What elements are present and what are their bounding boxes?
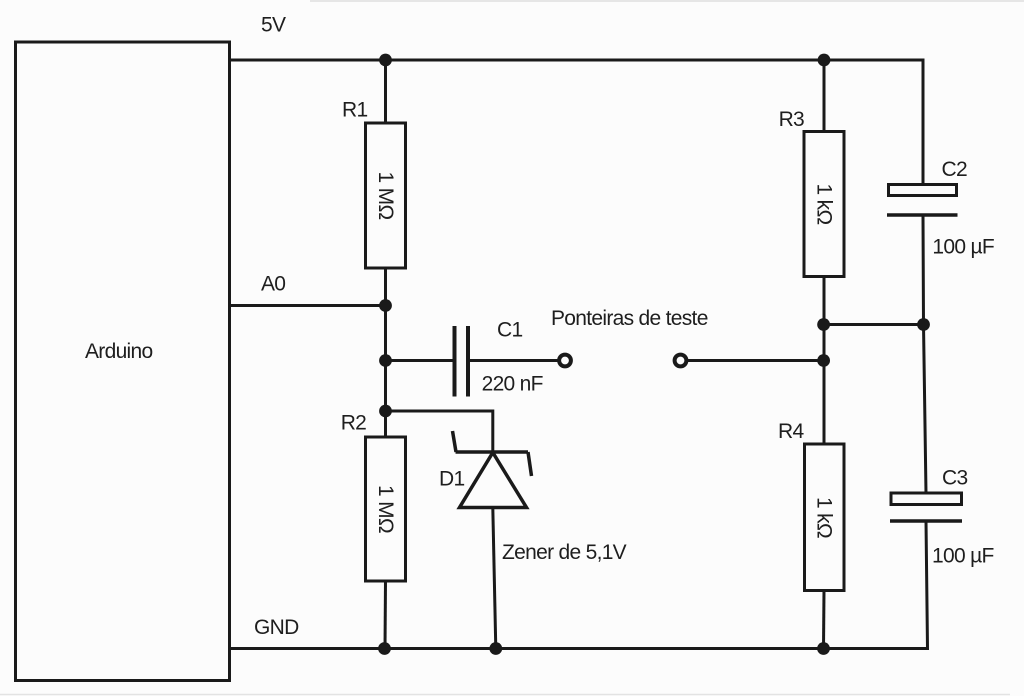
node C1 junction (379, 354, 392, 367)
wire 5V node to R1 top (384, 60, 387, 123)
capacitor C2 top plate (889, 185, 957, 196)
svg-text:GND: GND (254, 616, 299, 639)
node 5V/R3 junction (818, 54, 831, 67)
wire D1 anode to GND (493, 508, 496, 649)
resistor R2 body (366, 437, 406, 581)
svg-text:R2: R2 (341, 412, 366, 435)
node zener junction (379, 405, 392, 418)
svg-text:Zener de 5,1V: Zener de 5,1V (502, 541, 627, 564)
svg-text:5V: 5V (261, 14, 286, 37)
svg-text:C1: C1 (497, 319, 522, 342)
scan artifact bottom edge (0, 694, 1010, 696)
wire R1 bottom through A0/C1/zener nodes to R2 top (384, 268, 387, 437)
svg-text:R3: R3 (779, 108, 804, 131)
svg-text:1 MΩ: 1 MΩ (374, 172, 397, 220)
svg-text:R1: R1 (342, 99, 367, 122)
resistor R4 body (805, 444, 845, 591)
scan artifact top edge (310, 0, 1024, 2)
svg-text:100 µF: 100 µF (932, 545, 994, 568)
wire right rail between C2 and C3 (923, 216, 926, 494)
wire R3 bottom through nodes to R4 top (823, 277, 826, 445)
capacitor C3 top plate (891, 493, 962, 505)
svg-text:220 nF: 220 nF (482, 372, 543, 395)
terminal left test probe (559, 355, 571, 367)
svg-text:D1: D1 (439, 468, 464, 491)
svg-text:1 kΩ: 1 kΩ (813, 184, 836, 225)
svg-text:R4: R4 (778, 420, 804, 443)
svg-text:C3: C3 (942, 467, 967, 490)
node C2 bottom junction (917, 318, 930, 331)
node R4/GND junction (817, 642, 830, 655)
diode D1 zener left hook (453, 431, 457, 452)
terminal right test probe (675, 355, 687, 367)
diode D1 zener cathode bar (456, 450, 529, 454)
capacitor C1 left plate (453, 326, 457, 397)
resistor R3 body (804, 132, 844, 277)
svg-text:Arduino: Arduino (85, 340, 153, 363)
node 5V/R1 junction (379, 54, 392, 67)
Arduino module body (16, 42, 230, 681)
svg-text:Ponteiras de teste: Ponteiras de teste (551, 307, 708, 330)
svg-text:1 kΩ: 1 kΩ (813, 497, 836, 538)
diode D1 triangle (460, 453, 527, 508)
node probe/R4 junction (817, 354, 830, 367)
svg-text:C2: C2 (942, 158, 967, 181)
wire R2 bottom to GND (384, 581, 388, 649)
diode D1 zener right hook (528, 452, 532, 476)
node A0/R1 junction (379, 299, 392, 312)
svg-text:1 MΩ: 1 MΩ (374, 485, 397, 533)
wire C1 right lead to probe (468, 359, 558, 362)
node R2/GND junction (378, 642, 391, 655)
wire 5V rail (top) and right rail upper segment (230, 60, 924, 185)
wire right probe to R3/R4 column (688, 359, 824, 362)
wire cross link R3 bottom to C2 bottom (824, 323, 924, 326)
svg-text:100 µF: 100 µF (932, 236, 994, 259)
capacitor C1 right plate (466, 326, 470, 397)
wire right rail lower segment and GND rail (230, 521, 928, 649)
wire C1 left lead (386, 359, 455, 362)
wire A0 from Arduino (230, 304, 386, 307)
node R3 bottom junction (817, 318, 830, 331)
capacitor C3 bottom plate (890, 519, 962, 523)
capacitor C2 bottom plate (887, 213, 958, 217)
wire R4 bottom to GND (822, 591, 826, 649)
wire 5V node to R3 top (823, 60, 826, 132)
wire zener branch from node to cathode (386, 411, 493, 452)
node D1/GND junction (489, 642, 502, 655)
svg-text:A0: A0 (261, 273, 285, 296)
resistor R1 body (366, 123, 406, 268)
